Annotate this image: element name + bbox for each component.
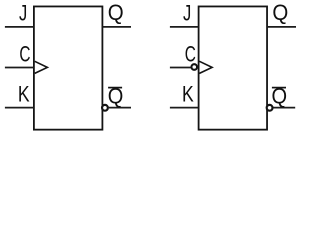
inversion bubble on Q-bar output U2 (267, 105, 273, 111)
svg-text:K: K (18, 83, 30, 107)
svg-text:K: K (182, 83, 194, 107)
svg-text:J: J (183, 1, 191, 26)
wire K input U2 (170, 107, 199, 109)
svg-text:J: J (19, 1, 27, 26)
clock edge triangle U2 (199, 61, 212, 73)
clock edge triangle U1 (35, 61, 48, 73)
overline of Q-bar label U2 (272, 87, 286, 89)
svg-text:Q: Q (108, 0, 124, 25)
wire Q-bar output U1 (109, 107, 131, 109)
wire C input U1 (5, 67, 34, 69)
wire K input U1 (5, 107, 34, 109)
wire C input U2 (170, 67, 192, 69)
wire Q output U2 (267, 26, 296, 28)
inversion bubble on Q-bar output U1 (102, 105, 108, 111)
svg-text:Q: Q (272, 0, 288, 25)
wire J input U1 (5, 26, 34, 28)
flip-flop U1 body (34, 6, 103, 129)
wire J input U2 (170, 26, 199, 28)
wire Q-bar output U2 (273, 107, 295, 109)
clock inversion bubble U2 (191, 64, 197, 70)
svg-text:C: C (19, 43, 30, 67)
overline of Q-bar label U1 (108, 87, 122, 89)
wire Q output U1 (102, 26, 131, 28)
flip-flop U2 body (199, 6, 267, 129)
